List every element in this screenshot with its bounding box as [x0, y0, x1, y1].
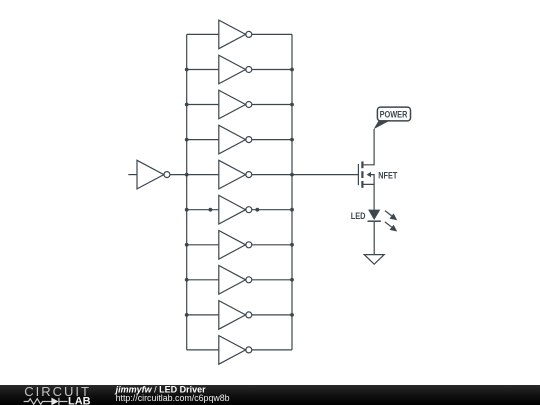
power flag POWER [374, 107, 411, 129]
transistor Q1 NFET [358, 129, 374, 210]
wire U6 input [187, 174, 219, 176]
logo resistor-diode wire [24, 398, 68, 405]
wire U7 input [187, 209, 219, 211]
wire LED cathode to ground [373, 221, 375, 254]
wire gate net [292, 174, 358, 176]
inverter U9 [219, 266, 252, 295]
wire U6 output [252, 174, 292, 176]
wire U1 output to left bus [170, 174, 187, 176]
wire U7 output [252, 209, 292, 211]
wire U10 input [187, 314, 219, 316]
svg-text:LED: LED [351, 211, 366, 221]
inverter U4 [219, 90, 252, 119]
left bus wire [186, 34, 188, 350]
wire U9 input [187, 279, 219, 281]
inverter U11 [219, 336, 252, 365]
LED emission arrow 2 [385, 222, 397, 232]
wire U5 output [252, 139, 292, 141]
ground [364, 255, 384, 265]
wire input stub [128, 174, 137, 176]
node dot U7 input [209, 208, 213, 212]
wire U3 input [187, 69, 219, 71]
svg-text:http://circuitlab.com/c6pqw8b: http://circuitlab.com/c6pqw8b [116, 393, 230, 403]
wire U9 output [252, 279, 292, 281]
inverter U5 [219, 125, 252, 154]
wire U8 input [187, 244, 219, 246]
inverter U3 [219, 55, 252, 84]
svg-text:NFET: NFET [378, 171, 397, 181]
wire U5 input [187, 139, 219, 141]
node dots left bus [185, 68, 189, 317]
inverter U1 (input) [137, 160, 170, 189]
inverter U7 [219, 195, 252, 224]
LED D1 [368, 210, 381, 222]
right bus wire [291, 34, 293, 350]
svg-text:POWER: POWER [380, 110, 408, 120]
node dots right bus [290, 68, 294, 317]
node dot U7 output [255, 208, 259, 212]
wire U3 output [252, 69, 292, 71]
inverter U6 [219, 160, 252, 189]
LED emission arrow 1 [385, 211, 397, 221]
wire U11 output [252, 349, 292, 351]
wire U2 input [187, 33, 219, 35]
wire U2 output [252, 33, 292, 35]
inverter U2 [219, 20, 252, 49]
svg-text:LAB: LAB [68, 396, 91, 405]
wire U4 output [252, 104, 292, 106]
inverter U10 [219, 301, 252, 330]
wire U11 input [187, 349, 219, 351]
wire U8 output [252, 244, 292, 246]
wire U4 input [187, 104, 219, 106]
wire U10 output [252, 314, 292, 316]
footer bar [0, 385, 540, 405]
inverter U8 [219, 231, 252, 260]
logo diode triangle [51, 398, 58, 405]
